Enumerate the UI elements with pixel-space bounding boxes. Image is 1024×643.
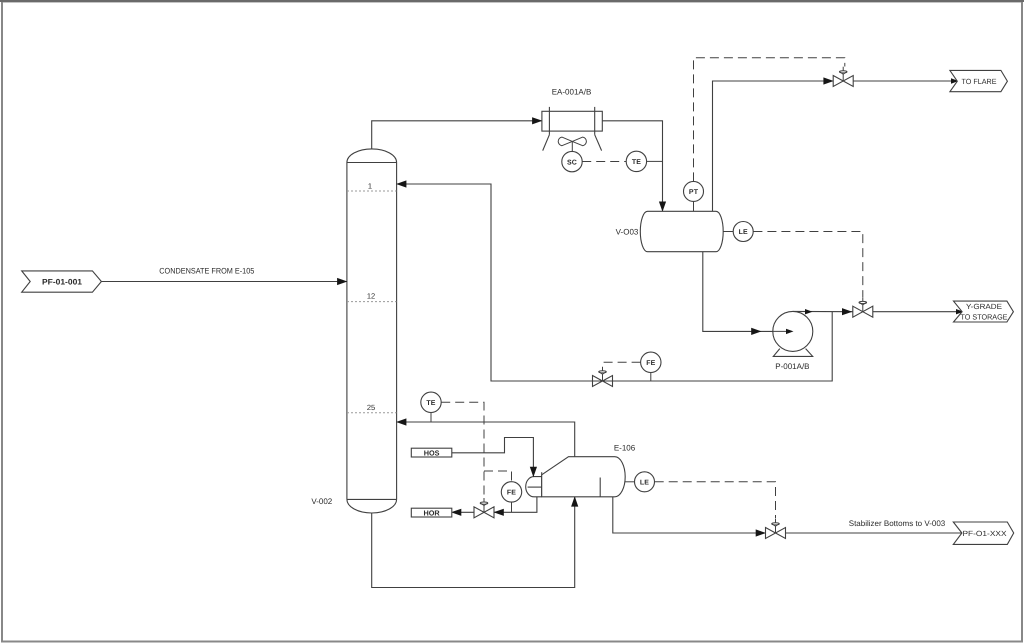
control valve (HOR) <box>474 498 494 518</box>
instrument PT <box>684 181 704 201</box>
air cooler EA-001A/B <box>542 107 602 151</box>
svg-text:25: 25 <box>367 403 375 412</box>
instrument SC <box>562 151 582 171</box>
off-page flag PF-O1-XXX <box>953 522 1013 544</box>
pump P-001A/B <box>773 311 813 351</box>
wire dashed PT to flare valve <box>694 58 845 182</box>
svg-text:LE: LE <box>640 480 649 487</box>
wire reboiler bottoms to flag <box>613 497 766 533</box>
svg-text:FE: FE <box>507 490 516 497</box>
wire dashed LE to y-grade valve <box>753 232 862 298</box>
svg-text:CONDENSATE FROM E-105: CONDENSATE FROM E-105 <box>159 267 255 276</box>
tray 1 dashed line <box>347 190 397 192</box>
svg-text:HOR: HOR <box>423 509 440 518</box>
control valve (reflux) <box>593 367 613 387</box>
instrument FE (reflux) <box>641 352 661 372</box>
kettle reboiler E-106 <box>526 457 625 497</box>
svg-text:TE: TE <box>426 400 435 407</box>
HOR box <box>411 508 452 517</box>
wire feed line <box>101 281 347 283</box>
fan symbol <box>558 137 586 146</box>
tray 12 dashed line <box>347 301 397 303</box>
svg-text:LE: LE <box>739 229 748 236</box>
svg-text:SC: SC <box>567 159 577 166</box>
wire V-003 bottom to pump <box>703 252 773 332</box>
wire LE stem <box>723 231 733 233</box>
wire recycle from discharge to column tray 1 <box>397 184 833 381</box>
wire FE stem <box>650 373 652 382</box>
wire FE stem <box>511 502 513 512</box>
wire valve to y-grade flag <box>873 311 961 313</box>
wire LE stem <box>625 481 635 483</box>
wire valve to flag <box>786 532 962 534</box>
wire valve to HOR box <box>456 511 474 513</box>
wire overhead vapour <box>372 121 542 150</box>
instrument FE (hot oil) <box>501 482 521 502</box>
column V-002 shell <box>347 149 397 513</box>
wire channel head to HOR <box>494 497 537 513</box>
svg-text:Y-GRADE: Y-GRADE <box>966 302 1002 311</box>
control valve (flare) <box>833 67 853 87</box>
svg-text:PF-01-001: PF-01-001 <box>42 278 83 287</box>
off-page flag PF-01-001 <box>22 271 102 292</box>
svg-text:E-106: E-106 <box>614 444 636 453</box>
off-page flag TO FLARE <box>950 70 1008 91</box>
wire pump discharge <box>793 310 853 312</box>
wire TE tap to line <box>647 160 663 162</box>
svg-text:1: 1 <box>368 182 372 191</box>
svg-text:HOS: HOS <box>424 449 440 458</box>
wire HOS to reboiler channel head <box>452 438 534 477</box>
wire dashed SC-TE <box>582 161 626 163</box>
wire PT stem <box>693 201 695 211</box>
wire to flare <box>713 81 834 211</box>
wire column bottoms <box>372 497 575 588</box>
svg-text:V-002: V-002 <box>311 497 332 506</box>
svg-text:PT: PT <box>689 189 699 196</box>
svg-text:Stabilizer Bottoms to V-003: Stabilizer Bottoms to V-003 <box>849 519 946 528</box>
wire dashed TE to HOR valve + FE branch <box>441 402 484 498</box>
svg-text:EA-001A/B: EA-001A/B <box>552 88 592 97</box>
wire dashed FE to reflux valve <box>603 362 641 366</box>
HOS box <box>411 448 452 457</box>
instrument LE (E-106) <box>635 472 655 492</box>
wire valve to flag <box>853 80 956 82</box>
instrument TE (bottom) <box>421 392 441 412</box>
tray 25 dashed line <box>347 412 397 414</box>
svg-text:TO STORAGE: TO STORAGE <box>961 313 1008 322</box>
control valve (y-grade) <box>853 297 873 317</box>
svg-text:PF-O1-XXX: PF-O1-XXX <box>963 529 1007 538</box>
wire cooler outlet to V-003 <box>602 121 662 212</box>
svg-text:TO FLARE: TO FLARE <box>962 77 997 86</box>
svg-text:V-O03: V-O03 <box>616 227 639 236</box>
svg-text:12: 12 <box>367 292 375 301</box>
svg-text:TE: TE <box>632 159 641 166</box>
wire TE stem <box>430 413 432 423</box>
off-page flag Y-GRADE TO STORAGE <box>954 301 1014 322</box>
instrument TE (overhead) <box>626 151 646 171</box>
control valve (bottoms) <box>766 519 786 539</box>
wire dashed LE to bottoms valve <box>655 482 776 519</box>
svg-text:FE: FE <box>646 360 655 367</box>
svg-text:P-001A/B: P-001A/B <box>775 362 809 371</box>
vessel V-003 <box>640 211 723 251</box>
wire vapor return to column <box>397 422 575 457</box>
instrument LE (V-003) <box>733 222 753 242</box>
